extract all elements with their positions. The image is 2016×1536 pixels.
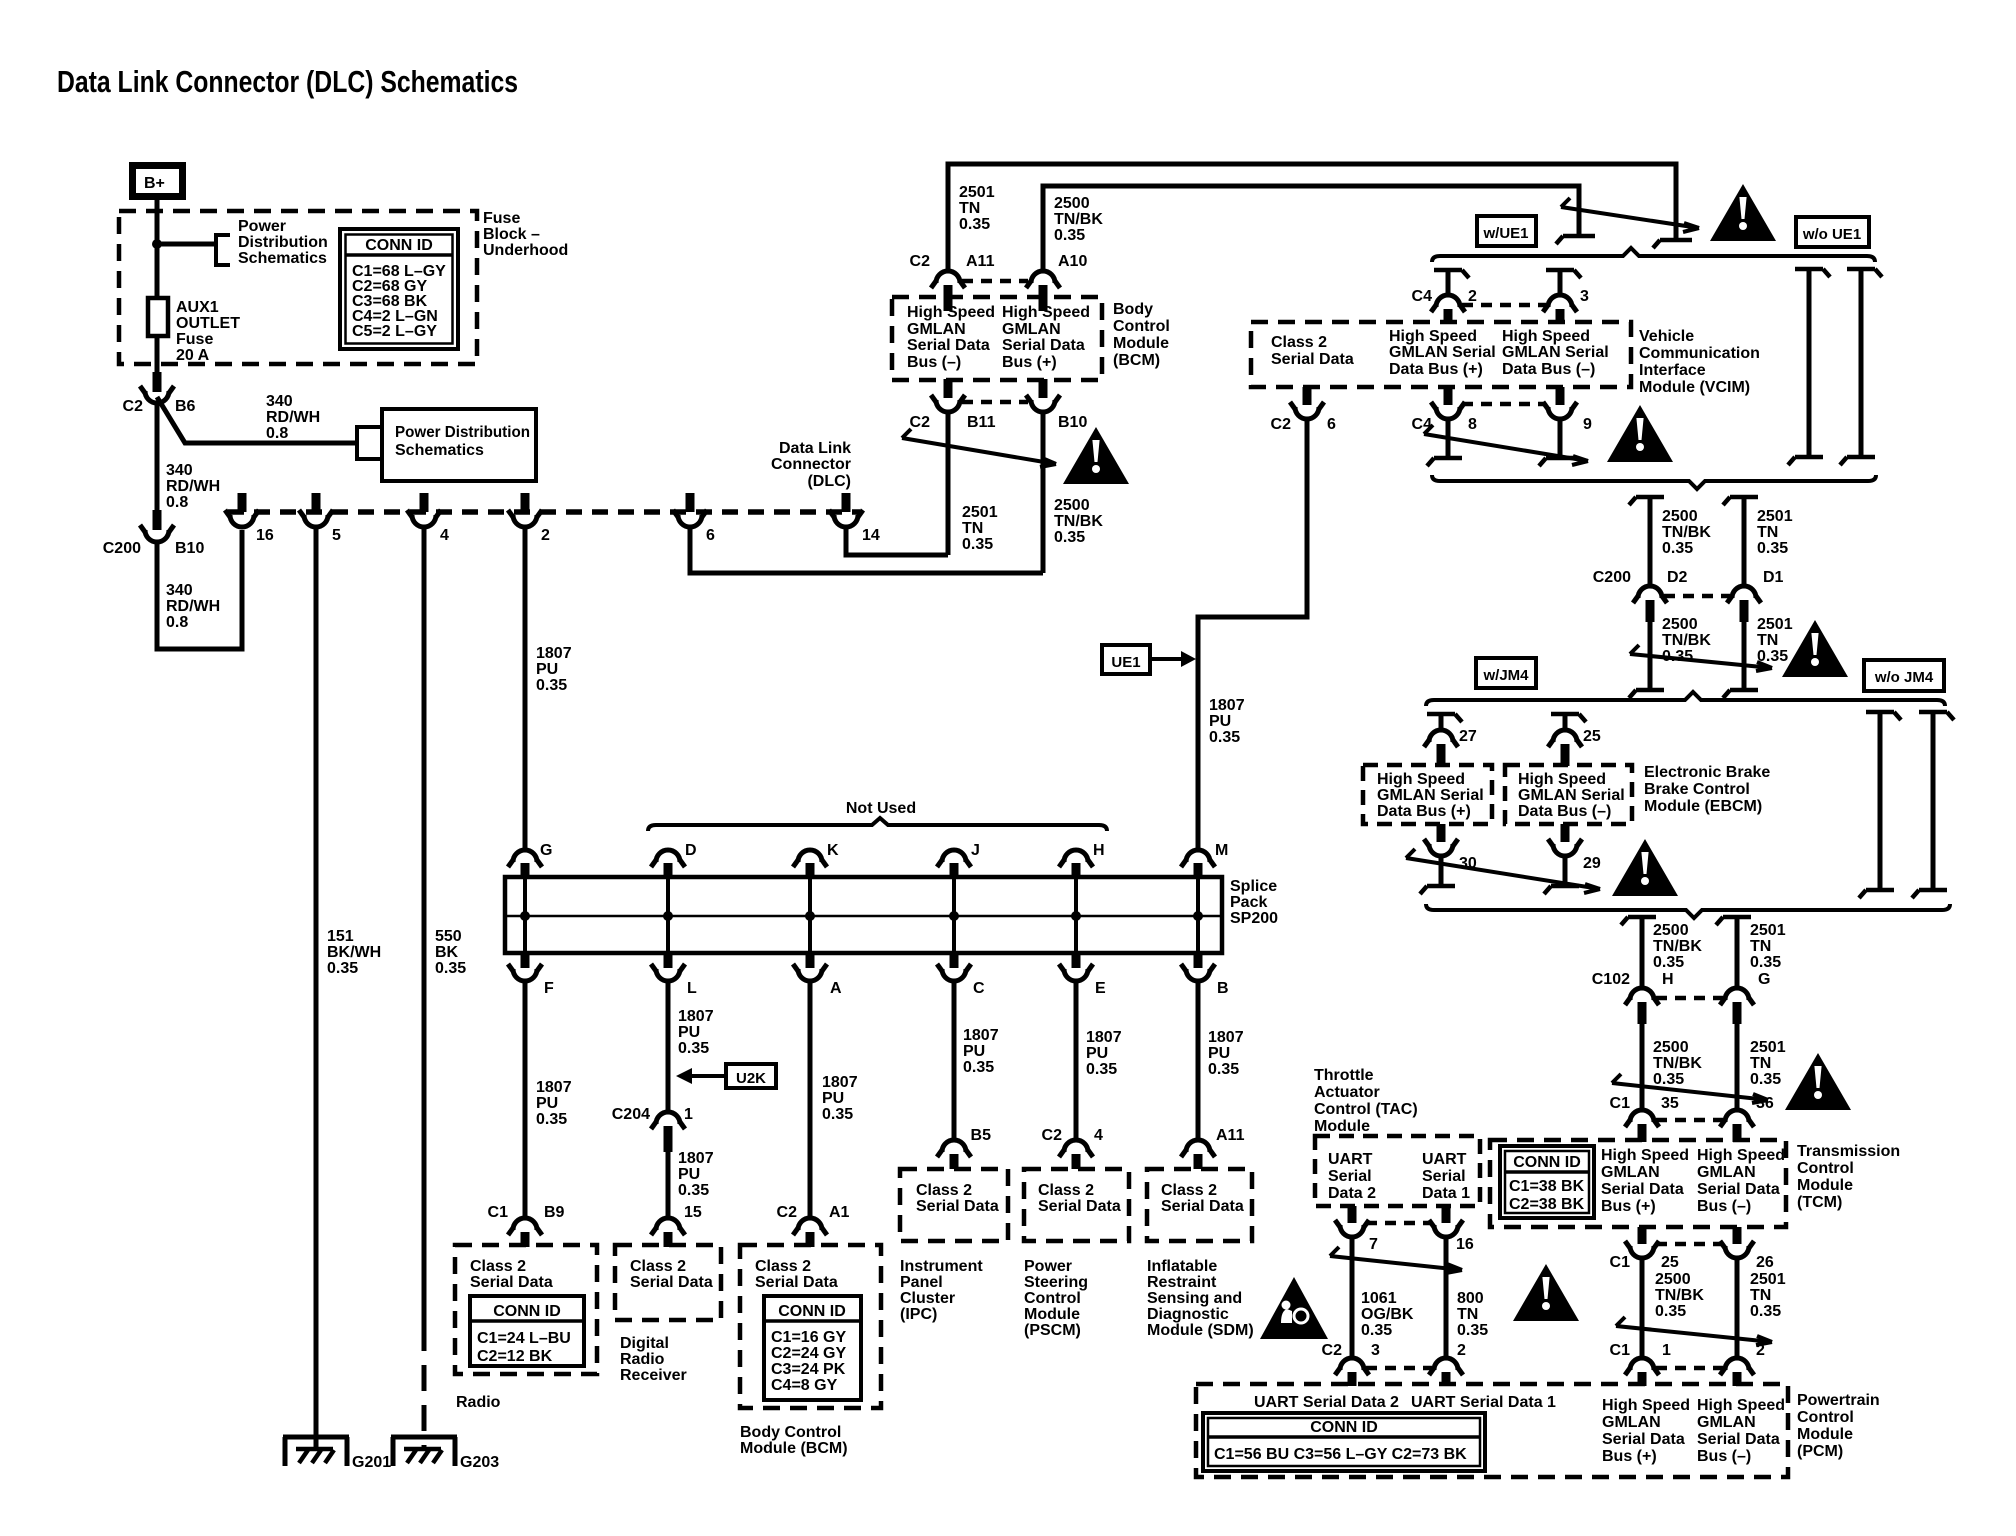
wire TCM 26 to PCM 2 <box>1735 1257 1740 1358</box>
svg-text:TN: TN <box>1750 1287 1771 1304</box>
label 340 RD/WH 0.8 (lower) <box>166 582 220 631</box>
svg-text:Interface: Interface <box>1639 362 1706 379</box>
svg-text:(TCM): (TCM) <box>1797 1194 1842 1211</box>
svg-text:PU: PU <box>963 1043 985 1060</box>
svg-text:C2: C2 <box>910 414 931 431</box>
svg-text:F: F <box>544 980 554 997</box>
svg-text:CONN ID: CONN ID <box>1310 1419 1378 1436</box>
label 340 RD/WH 0.8 (mid) <box>166 462 220 511</box>
svg-text:Data Bus (–): Data Bus (–) <box>1518 803 1611 820</box>
svg-text:TN: TN <box>1757 524 1778 541</box>
svg-text:8: 8 <box>1468 416 1477 433</box>
svg-text:0.35: 0.35 <box>1457 1322 1488 1339</box>
warning triangle (EBCM) <box>1612 839 1678 896</box>
connector splice pin B (bottom) <box>1181 953 1215 981</box>
svg-text:A1: A1 <box>829 1204 850 1221</box>
svg-text:C4: C4 <box>1412 288 1433 305</box>
label Inflatable Restraint Sensing and Diagnostic Module (SDM) <box>1147 1258 1254 1339</box>
wire w/o UE1 bypass right <box>1840 269 1882 465</box>
connector splice pin A (bottom) <box>793 953 827 981</box>
svg-text:1: 1 <box>1662 1342 1671 1359</box>
box Splice Pack SP200 <box>505 877 1222 953</box>
label 151 BK/WH 0.35 <box>327 928 381 977</box>
svg-text:Receiver: Receiver <box>620 1367 687 1384</box>
connector splice pin E (bottom) <box>1059 953 1093 981</box>
box Radio dashed <box>455 1245 597 1374</box>
svg-text:Module (VCIM): Module (VCIM) <box>1639 379 1750 396</box>
table CONN ID (BCM) <box>764 1296 861 1400</box>
table CONN ID (PCM) <box>1203 1413 1485 1471</box>
connector DLC pin 14 <box>829 493 863 527</box>
brace VCIM section bottom <box>1432 475 1876 489</box>
svg-text:Module: Module <box>1024 1306 1080 1323</box>
svg-text:340: 340 <box>166 582 193 599</box>
svg-text:Class 2: Class 2 <box>630 1258 686 1275</box>
svg-text:D1: D1 <box>1763 569 1784 586</box>
svg-text:C2: C2 <box>1322 1342 1343 1359</box>
label 2501 TN 0.35 (TCM-PCM) <box>1750 1271 1786 1320</box>
svg-text:(DLC): (DLC) <box>807 473 851 490</box>
ground G203 <box>391 1437 499 1471</box>
svg-text:C2=24 GY: C2=24 GY <box>771 1345 846 1362</box>
svg-text:K: K <box>827 842 839 859</box>
svg-text:PU: PU <box>678 1166 700 1183</box>
connector splice pin K (top, not used) <box>793 850 827 953</box>
label High Speed GMLAN Serial Data Bus (-) (PCM) <box>1697 1397 1785 1465</box>
svg-text:2501: 2501 <box>959 184 995 201</box>
svg-text:1807: 1807 <box>678 1150 714 1167</box>
hook D2 wire start <box>1629 497 1664 505</box>
svg-text:Serial Data: Serial Data <box>1697 1431 1780 1448</box>
label C102 / H / G <box>1592 971 1771 988</box>
svg-text:Module (BCM): Module (BCM) <box>740 1440 848 1457</box>
label 1807 PU 0.35 (C wire) <box>963 1027 999 1076</box>
svg-text:A11: A11 <box>966 253 995 270</box>
label C1 / 35 / 36 <box>1610 1095 1774 1112</box>
svg-text:16: 16 <box>1456 1236 1474 1253</box>
svg-text:Class 2: Class 2 <box>1161 1182 1217 1199</box>
svg-text:Bus (+): Bus (+) <box>1602 1448 1657 1465</box>
connector splice pin D (top, not used) <box>651 850 685 953</box>
svg-text:AUX1: AUX1 <box>176 299 219 316</box>
svg-text:High Speed: High Speed <box>1502 328 1590 345</box>
svg-text:Powertrain: Powertrain <box>1797 1392 1880 1409</box>
wire branch to Power Distribution Schematics reference <box>157 242 216 247</box>
label High Speed GMLAN Serial Data Bus (-) (TCM) <box>1697 1147 1785 1215</box>
hook EBCM pin 25 start <box>1551 714 1586 722</box>
dashed link TCM bottom 25-26 <box>1656 1242 1723 1247</box>
wire BCM B11 drop <box>946 411 951 555</box>
svg-text:D2: D2 <box>1667 569 1688 586</box>
svg-text:Data Bus (+): Data Bus (+) <box>1377 803 1471 820</box>
svg-text:TN: TN <box>959 200 980 217</box>
svg-text:Digital: Digital <box>620 1335 669 1352</box>
label Body Control Module (BCM) <box>1113 301 1170 369</box>
label Class 2 Serial Data (Digital Radio) <box>630 1258 713 1291</box>
connector IPC pin B5 <box>937 1140 971 1169</box>
hook at end of A11 wire <box>1653 240 1692 248</box>
SRS warning triangle (SDM note) <box>1260 1277 1328 1339</box>
wire splice E to PSCM <box>1074 980 1079 1142</box>
connector TCM bottom C1 pin 25 <box>1625 1227 1659 1258</box>
svg-text:Sensing and: Sensing and <box>1147 1290 1242 1307</box>
svg-text:Power Distribution: Power Distribution <box>395 424 530 441</box>
svg-text:Body: Body <box>1113 301 1153 318</box>
svg-text:0.8: 0.8 <box>266 425 288 442</box>
connector Radio C1 pin B9 <box>508 1218 542 1247</box>
svg-text:Throttle: Throttle <box>1314 1067 1374 1084</box>
warning triangle (PCM GMLAN) <box>1513 1264 1579 1321</box>
hook VCIM pin 2 start <box>1434 270 1469 278</box>
svg-text:1807: 1807 <box>678 1008 714 1025</box>
svg-text:TN: TN <box>1750 938 1771 955</box>
box SDM dashed <box>1147 1169 1252 1241</box>
wire diagonal from C2 B6 to power distribution feed <box>157 397 357 443</box>
svg-text:0.8: 0.8 <box>166 614 188 631</box>
dashed link PCM 3-2 <box>1366 1366 1432 1371</box>
dashed link between pins 8 and 9 <box>1462 402 1546 407</box>
svg-text:GMLAN: GMLAN <box>907 321 966 338</box>
svg-text:2: 2 <box>541 527 550 544</box>
connector VCIM bottom C4 pin 8 <box>1431 387 1465 419</box>
dashed link C200 D2-D1 <box>1664 594 1730 599</box>
svg-text:G201: G201 <box>352 1454 391 1471</box>
svg-text:High Speed: High Speed <box>1697 1147 1785 1164</box>
svg-text:Diagnostic: Diagnostic <box>1147 1306 1229 1323</box>
bracket into Power Distribution Schematics box <box>357 427 382 459</box>
wire DLC dashed bus <box>228 509 860 515</box>
svg-text:C1: C1 <box>1610 1342 1631 1359</box>
svg-text:2501: 2501 <box>1757 508 1793 525</box>
node B+ battery box <box>133 166 183 197</box>
label Body Control Module (BCM) bottom <box>740 1424 848 1457</box>
svg-text:C5=2 L–GY: C5=2 L–GY <box>352 323 437 340</box>
svg-text:Power: Power <box>1024 1258 1072 1275</box>
svg-text:A10: A10 <box>1058 253 1087 270</box>
label 1807 PU 0.35 (M wire) <box>1209 697 1245 746</box>
svg-text:B: B <box>1217 980 1229 997</box>
svg-text:Bus (+): Bus (+) <box>1601 1198 1656 1215</box>
wire w/o UE1 bypass left <box>1788 269 1830 465</box>
connector VCIM bottom pin 9 <box>1543 387 1577 419</box>
svg-text:PU: PU <box>1086 1045 1108 1062</box>
connector TCM bottom pin 26 <box>1720 1227 1754 1258</box>
svg-text:Vehicle: Vehicle <box>1639 328 1694 345</box>
svg-text:SP200: SP200 <box>1230 910 1278 927</box>
svg-text:3: 3 <box>1580 288 1589 305</box>
svg-text:OUTLET: OUTLET <box>176 315 240 332</box>
svg-text:BK: BK <box>435 944 459 961</box>
svg-text:PU: PU <box>536 1095 558 1112</box>
svg-text:RD/WH: RD/WH <box>166 598 220 615</box>
label C1 / B9 <box>488 1204 565 1221</box>
label 1807 PU 0.35 (F wire) <box>536 1079 572 1128</box>
svg-text:0.35: 0.35 <box>1653 1071 1684 1088</box>
connector VCIM C4 pin 2 <box>1431 295 1465 324</box>
svg-text:9: 9 <box>1583 416 1592 433</box>
label Throttle Actuator Control (TAC) Module <box>1314 1067 1418 1135</box>
svg-text:Data Bus (–): Data Bus (–) <box>1502 361 1595 378</box>
wire splice F to Radio B9 <box>523 980 528 1218</box>
label 1061 OG/BK 0.35 <box>1361 1290 1414 1339</box>
label 550 BK 0.35 <box>435 928 466 977</box>
svg-text:(PCM): (PCM) <box>1797 1443 1843 1460</box>
svg-text:PU: PU <box>1209 713 1231 730</box>
svg-text:High Speed: High Speed <box>1002 304 1090 321</box>
svg-text:B9: B9 <box>544 1204 565 1221</box>
label C2 / 6 <box>1271 416 1336 433</box>
label AUX1 OUTLET Fuse 20 A <box>176 299 240 364</box>
svg-text:Module: Module <box>1797 1426 1853 1443</box>
svg-text:0.35: 0.35 <box>1054 227 1085 244</box>
wire w/o JM4 bypass left <box>1859 712 1901 898</box>
connector BCM bottom C2 pin B11 <box>931 379 965 412</box>
svg-text:Class 2: Class 2 <box>470 1258 526 1275</box>
connector EBCM pin 25 <box>1548 730 1582 766</box>
connector splice pin M (top) <box>1181 850 1215 953</box>
warning triangle (UE1 area) <box>1710 184 1776 241</box>
wire B+ down to fuse and C2 connector <box>155 200 160 374</box>
wire TCM 25 to PCM 1 <box>1640 1257 1645 1358</box>
svg-text:15: 15 <box>684 1204 702 1221</box>
arrow U2K to L wire <box>676 1068 726 1084</box>
svg-text:0.35: 0.35 <box>678 1040 709 1057</box>
twisted pair arrow (UE1 selector) <box>1561 198 1699 232</box>
hook EBCM pin 27 start <box>1427 714 1462 722</box>
svg-text:A11: A11 <box>1216 1127 1245 1144</box>
svg-text:2500: 2500 <box>1653 1039 1689 1056</box>
label Class 2 Serial Data (PSCM) <box>1038 1182 1121 1215</box>
label 1807 PU 0.35 (L wire) <box>678 1008 714 1057</box>
svg-text:29: 29 <box>1583 855 1601 872</box>
warning triangle (C200 area) <box>1782 620 1848 677</box>
svg-text:High Speed: High Speed <box>1389 328 1477 345</box>
svg-text:35: 35 <box>1661 1095 1679 1112</box>
svg-text:C1: C1 <box>488 1204 509 1221</box>
svg-text:C1: C1 <box>1610 1254 1631 1271</box>
connector splice pin L (bottom) <box>651 953 685 981</box>
fuse block underhood dashed box <box>119 211 477 364</box>
svg-text:Class 2: Class 2 <box>1271 334 1327 351</box>
svg-text:Bus (–): Bus (–) <box>1697 1448 1751 1465</box>
svg-text:High Speed: High Speed <box>1518 771 1606 788</box>
box Power Distribution Schematics <box>382 409 536 481</box>
connector BCM bottom pin B10 <box>1026 379 1060 412</box>
box EBCM bus minus dashed <box>1505 765 1632 824</box>
svg-text:1807: 1807 <box>963 1027 999 1044</box>
label High Speed GMLAN Serial Data Bus (-) (VCIM) <box>1502 328 1609 378</box>
svg-text:Data 1: Data 1 <box>1422 1185 1470 1202</box>
svg-text:14: 14 <box>862 527 880 544</box>
svg-text:C1=38 BK: C1=38 BK <box>1509 1178 1585 1195</box>
label 2500 TN/BK 0.35 (TCM-PCM) <box>1655 1271 1704 1320</box>
svg-text:0.35: 0.35 <box>963 1059 994 1076</box>
svg-text:0.35: 0.35 <box>1655 1303 1686 1320</box>
label Transmission Control Module (TCM) <box>1797 1143 1900 1211</box>
label C204 / 1 <box>612 1106 693 1123</box>
svg-text:Class 2: Class 2 <box>755 1258 811 1275</box>
wire C200 B10 loop up to DLC pin 16 <box>157 530 242 649</box>
svg-text:Electronic Brake: Electronic Brake <box>1644 764 1770 781</box>
fuse AUX1 OUTLET 20 A <box>148 298 168 336</box>
label C2 / B6 <box>123 398 196 415</box>
svg-text:6: 6 <box>1327 416 1336 433</box>
svg-text:Panel: Panel <box>900 1274 943 1291</box>
box IPC dashed <box>900 1169 1008 1241</box>
wire TAC 7 to PCM 3 <box>1350 1236 1355 1358</box>
svg-text:UART Serial Data 2: UART Serial Data 2 <box>1254 1394 1399 1411</box>
wire C204 to Digital Radio pin 15 <box>666 1152 671 1218</box>
twisted pair arrow at VCIM pins 8/9 <box>1424 425 1588 465</box>
hook D1 wire end <box>1723 690 1758 698</box>
svg-text:G: G <box>540 842 552 859</box>
label High Speed GMLAN Serial Data Bus (-) <box>907 304 995 371</box>
svg-text:Control (TAC): Control (TAC) <box>1314 1101 1418 1118</box>
connector PCM pin 2 (UART) <box>1429 1358 1463 1386</box>
svg-text:1807: 1807 <box>1209 697 1245 714</box>
svg-text:Control: Control <box>1797 1160 1854 1177</box>
svg-text:E: E <box>1095 980 1106 997</box>
svg-text:0.35: 0.35 <box>536 1111 567 1128</box>
dashed link PCM 1-2 <box>1656 1366 1723 1371</box>
svg-text:0.35: 0.35 <box>1209 729 1240 746</box>
svg-text:GMLAN: GMLAN <box>1602 1414 1661 1431</box>
svg-text:C: C <box>973 980 985 997</box>
connector VCIM pin 3 <box>1543 295 1577 324</box>
svg-text:0.35: 0.35 <box>1054 529 1085 546</box>
svg-text:GMLAN Serial: GMLAN Serial <box>1502 344 1609 361</box>
label 1807 PU 0.35 (pin 2 wire) <box>536 645 572 694</box>
hook EBCM pin 30 end <box>1420 886 1455 894</box>
svg-text:C102: C102 <box>1592 971 1630 988</box>
label Splice Pack SP200 <box>1230 878 1278 927</box>
table CONN ID (TCM) <box>1500 1146 1594 1218</box>
label High Speed GMLAN Serial Data Bus (+) <box>1002 304 1090 371</box>
svg-text:1: 1 <box>684 1106 693 1123</box>
label 2500 TN/BK 0.35 (A10 wire) <box>1054 195 1103 244</box>
connector DLC pin 5 <box>299 493 333 527</box>
svg-text:Distribution: Distribution <box>238 234 328 251</box>
label High Speed GMLAN Serial Data Bus (+) (TCM) <box>1601 1147 1689 1215</box>
svg-text:CONN ID: CONN ID <box>365 237 433 254</box>
svg-text:TN: TN <box>962 520 983 537</box>
svg-text:Communication: Communication <box>1639 345 1760 362</box>
svg-text:B6: B6 <box>175 398 196 415</box>
svg-text:G203: G203 <box>460 1454 499 1471</box>
svg-text:Steering: Steering <box>1024 1274 1088 1291</box>
svg-text:GMLAN: GMLAN <box>1002 321 1061 338</box>
connector VCIM bottom C2 pin 6 <box>1290 387 1324 419</box>
box w/UE1 <box>1477 216 1536 246</box>
connector PCM pin 2 (GMLAN) <box>1720 1358 1754 1386</box>
wire splice C to IPC B5 <box>952 980 957 1142</box>
svg-text:TN: TN <box>1750 1055 1771 1072</box>
svg-text:2: 2 <box>1756 1342 1765 1359</box>
warning triangle (VCIM lower) <box>1607 405 1673 462</box>
svg-text:High Speed: High Speed <box>1601 1147 1689 1164</box>
label Class 2 Serial Data (VCIM) <box>1271 334 1354 368</box>
svg-text:High Speed: High Speed <box>1602 1397 1690 1414</box>
connector DLC pin 6 <box>673 493 707 527</box>
svg-text:2501: 2501 <box>1757 616 1793 633</box>
svg-text:Radio: Radio <box>620 1351 665 1368</box>
svg-text:Schematics: Schematics <box>395 442 484 459</box>
svg-text:Radio: Radio <box>456 1394 501 1411</box>
connector EBCM pin 27 <box>1424 730 1458 766</box>
svg-text:Serial Data: Serial Data <box>1161 1198 1244 1215</box>
label C4 / 2 / 3 <box>1412 288 1589 305</box>
wire VCIM to C200 D1 <box>1742 499 1747 586</box>
box U2K option label <box>726 1064 776 1088</box>
svg-text:550: 550 <box>435 928 462 945</box>
svg-text:2500: 2500 <box>1054 497 1090 514</box>
connector splice pin C (bottom) <box>937 953 971 981</box>
wire C102 H to TCM 35 <box>1640 1024 1645 1110</box>
wire EBCM pin 30 stub down <box>1439 855 1444 884</box>
hook VCIM pin 9 end <box>1539 458 1574 466</box>
svg-text:16: 16 <box>256 527 274 544</box>
label Power Distribution Schematics (upper) <box>238 218 328 267</box>
wire BCM B10 drop <box>1041 411 1046 573</box>
svg-text:High Speed: High Speed <box>907 304 995 321</box>
svg-text:Data Bus (+): Data Bus (+) <box>1389 361 1483 378</box>
wire EBCM pin 29 stub down <box>1563 855 1568 884</box>
label 2500 TN/BK 0.35 (H lower) <box>1653 1039 1702 1088</box>
dashed link TAC 7-16 <box>1366 1221 1432 1226</box>
svg-text:Brake Control: Brake Control <box>1644 781 1750 798</box>
box PSCM dashed <box>1024 1169 1129 1241</box>
svg-text:UART Serial Data 1: UART Serial Data 1 <box>1411 1394 1556 1411</box>
label Electronic Brake Brake Control Module (EBCM) <box>1644 764 1770 815</box>
svg-text:5: 5 <box>332 527 341 544</box>
brace JM4 section top <box>1426 692 1945 706</box>
twisted pair arrow at EBCM pins 30/29 <box>1406 849 1600 893</box>
box TCM dashed <box>1490 1140 1786 1227</box>
svg-text:0.35: 0.35 <box>1653 954 1684 971</box>
box Digital Radio Receiver dashed <box>615 1245 721 1320</box>
svg-text:0.35: 0.35 <box>1208 1061 1239 1078</box>
svg-text:Class 2: Class 2 <box>1038 1182 1094 1199</box>
svg-text:1807: 1807 <box>1086 1029 1122 1046</box>
svg-text:TN/BK: TN/BK <box>1655 1287 1704 1304</box>
svg-text:Control: Control <box>1024 1290 1081 1307</box>
twisted pair arrow at C200 D2/D1 <box>1630 645 1772 671</box>
label Class 2 Serial Data (SDM) <box>1161 1182 1244 1215</box>
connector DLC pin 16 <box>225 493 259 527</box>
dashed link between B11 and B10 <box>962 400 1028 405</box>
svg-text:RD/WH: RD/WH <box>266 409 320 426</box>
svg-text:0.35: 0.35 <box>536 677 567 694</box>
svg-text:U2K: U2K <box>736 1070 766 1087</box>
svg-text:0.35: 0.35 <box>1750 954 1781 971</box>
svg-text:C2: C2 <box>910 253 931 270</box>
connector PSCM C2 pin 4 <box>1059 1140 1093 1169</box>
connector BCM top C2 pin A11 <box>931 271 965 311</box>
label 1807 PU 0.35 (B wire) <box>1208 1029 1244 1078</box>
label 2501 TN 0.35 (G lower) <box>1750 1039 1786 1088</box>
wire C102 G to TCM 36 <box>1735 1024 1740 1110</box>
wire DLC pin 14 to BCM B11 <box>846 527 948 555</box>
wire TAC 16 to PCM 2 <box>1444 1236 1449 1358</box>
connector Digital Radio pin 15 <box>651 1218 685 1247</box>
svg-text:TN/BK: TN/BK <box>1653 1055 1702 1072</box>
svg-text:Data 2: Data 2 <box>1328 1185 1376 1202</box>
svg-text:Body Control: Body Control <box>740 1424 841 1441</box>
svg-text:Serial: Serial <box>1328 1168 1372 1185</box>
svg-text:0.35: 0.35 <box>1757 540 1788 557</box>
svg-text:High Speed: High Speed <box>1377 771 1465 788</box>
label Class 2 Serial Data (Radio) <box>470 1258 553 1291</box>
